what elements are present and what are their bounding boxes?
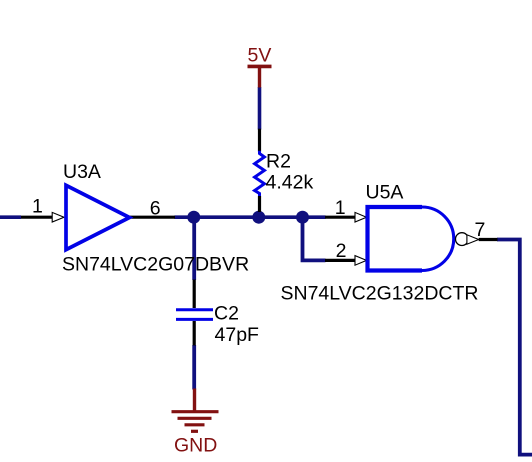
svg-text:C2: C2 bbox=[214, 303, 239, 325]
svg-text:2: 2 bbox=[336, 240, 347, 262]
svg-text:4.42k: 4.42k bbox=[266, 171, 314, 193]
svg-text:SN74LVC2G132DCTR: SN74LVC2G132DCTR bbox=[281, 283, 479, 305]
pin 2 arrow of U5A bbox=[355, 256, 367, 266]
inversion bubble of U5A bbox=[456, 233, 469, 246]
svg-text:1: 1 bbox=[335, 197, 346, 219]
ground symbol GND stem bbox=[193, 389, 196, 412]
ground symbol bar 4 bbox=[191, 430, 198, 433]
capacitor C2 top plate bbox=[176, 308, 213, 311]
pin 6 of U3A bbox=[130, 216, 175, 219]
wire junction to U5A pin 2 bbox=[303, 217, 326, 260]
wire main horizontal net bbox=[175, 215, 326, 219]
svg-text:1: 1 bbox=[32, 195, 43, 217]
pin 1 arrow of U5A bbox=[355, 212, 367, 222]
resistor R2 top pin bbox=[258, 129, 261, 152]
power symbol 5V bar bbox=[248, 65, 272, 69]
ground symbol bar 1 bbox=[172, 410, 219, 413]
svg-text:R2: R2 bbox=[266, 150, 291, 172]
capacitor C2 top pin bbox=[193, 280, 196, 309]
pin 7 of U5A bbox=[479, 238, 498, 241]
node junction at R2 column bbox=[252, 211, 265, 224]
nand gate U5A body straight edges bbox=[368, 207, 423, 271]
svg-text:6: 6 bbox=[150, 198, 161, 220]
pin 1 of U5A bbox=[325, 216, 355, 219]
svg-text:U3A: U3A bbox=[63, 161, 101, 183]
pin 1 of U3A bbox=[21, 216, 52, 219]
svg-text:U5A: U5A bbox=[366, 181, 404, 203]
wire junction to C2 bbox=[192, 217, 196, 280]
power symbol 5V stem bbox=[258, 66, 261, 87]
pin 2 of U5A bbox=[325, 259, 355, 262]
wire C2 to GND bbox=[192, 345, 196, 390]
svg-text:5V: 5V bbox=[248, 44, 272, 66]
ground symbol bar 3 bbox=[185, 423, 205, 426]
node junction at U5A feed bbox=[296, 211, 309, 224]
wire input net left edge bbox=[0, 215, 21, 219]
pin 1 arrow of U3A bbox=[52, 212, 64, 222]
capacitor C2 bottom plate bbox=[176, 318, 213, 321]
resistor R2 body bbox=[255, 151, 265, 197]
svg-text:47pF: 47pF bbox=[215, 324, 260, 346]
svg-text:SN74LVC2G07DBVR: SN74LVC2G07DBVR bbox=[62, 254, 249, 276]
node junction at C2 column bbox=[187, 211, 200, 224]
buffer U3A body bbox=[66, 185, 130, 249]
capacitor C2 bottom pin bbox=[193, 321, 196, 346]
pin 7 arrow of U5A bbox=[467, 235, 479, 244]
resistor R2 bottom pin bbox=[258, 196, 261, 212]
wire 5V to R2 bbox=[258, 87, 262, 130]
svg-text:GND: GND bbox=[174, 435, 217, 457]
svg-text:7: 7 bbox=[475, 219, 486, 241]
nand gate U5A body arc bbox=[422, 207, 454, 271]
ground symbol bar 2 bbox=[178, 417, 212, 420]
wire output net to bottom right bbox=[497, 240, 532, 455]
